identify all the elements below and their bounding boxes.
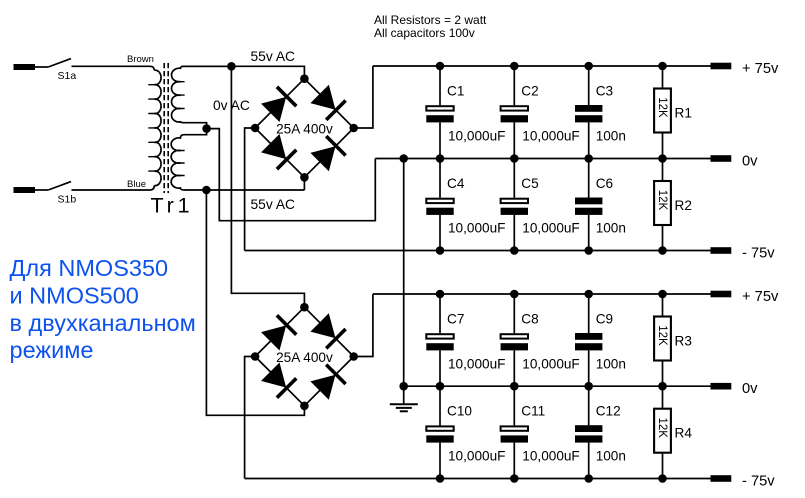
junction +75v upper rail x514 <box>510 62 519 71</box>
diode BR1 (top AC to DC+) <box>310 85 345 120</box>
svg-text:100n: 100n <box>596 356 626 371</box>
terminal (mains input, S1b side) <box>14 187 36 193</box>
node BR2 left DC- pin <box>251 352 260 361</box>
wire top AC feed to bridge 2 <box>231 66 304 307</box>
capacitor C6 <box>575 159 602 251</box>
junction 0v upper rail x403 <box>399 154 408 163</box>
junction 0v lower rail x662 <box>658 382 667 391</box>
transformer Tr1 core <box>164 63 168 193</box>
junction 0v upper rail x662 <box>658 154 667 163</box>
wire +75v rail (lower) <box>373 293 711 295</box>
junction +75v upper rail x588 <box>584 62 593 71</box>
svg-text:55v AC: 55v AC <box>251 197 296 212</box>
capacitor C10 <box>426 386 453 478</box>
svg-text:C11: C11 <box>521 404 545 419</box>
junction -75v upper rail x588 <box>584 246 593 255</box>
junction +75v lower rail x662 <box>658 290 667 299</box>
junction 0v lower rail x588 <box>584 382 593 391</box>
diode BR2 (DC- to bottom AC) <box>261 363 296 398</box>
svg-text:+ 75v: + 75v <box>742 61 779 77</box>
capacitor C11 <box>501 386 528 478</box>
svg-text:R2: R2 <box>675 198 692 213</box>
svg-text:и NMOS500: и NMOS500 <box>10 282 139 308</box>
capacitor C4 <box>426 159 453 251</box>
svg-text:12K: 12K <box>656 325 668 346</box>
resistor R3 <box>654 294 671 386</box>
svg-text:55v AC: 55v AC <box>251 49 296 64</box>
svg-text:10,000uF: 10,000uF <box>448 356 505 371</box>
wire S1a terminal to switch <box>35 66 48 68</box>
svg-text:10,000uF: 10,000uF <box>522 356 579 371</box>
node BR1 right DC+ pin <box>349 124 358 133</box>
capacitor C2 <box>501 66 528 159</box>
svg-text:0v: 0v <box>742 381 758 397</box>
svg-text:Blue: Blue <box>127 179 146 190</box>
wire S1b terminal to switch <box>35 189 48 191</box>
terminal - 75v (lower bank) <box>711 475 732 482</box>
junction -75v upper rail x440 <box>436 246 445 255</box>
capacitor C7 <box>426 294 453 386</box>
junction 0v lower rail x440 <box>436 382 445 391</box>
svg-text:10,000uF: 10,000uF <box>448 449 505 464</box>
bridge rectifier BR2 arms <box>255 307 354 406</box>
switch S1b <box>48 182 71 190</box>
wire 0v interlink (upper to lower bank) <box>403 159 405 387</box>
junction 0v upper rail x588 <box>584 154 593 163</box>
transformer Tr1 secondary winding (bottom 55v) <box>171 131 304 190</box>
wire -75v rail (upper) <box>245 250 711 252</box>
wire S1b switch to transformer (Blue) <box>72 186 155 191</box>
wire top 55v AC (secondary to bridge 1) <box>181 66 304 78</box>
node centre tap 0v AC <box>202 124 211 133</box>
wire 0v rail (upper) <box>375 158 711 160</box>
junction -75v lower rail x662 <box>658 474 667 483</box>
node BR1 left DC- pin <box>251 124 260 133</box>
node BR2 right DC+ pin <box>349 352 358 361</box>
transformer Tr1 primary winding cusps <box>148 85 154 171</box>
svg-text:- 75v: - 75v <box>742 473 775 489</box>
terminal + 75v (upper bank) <box>711 63 732 70</box>
capacitor C12 <box>575 386 602 478</box>
node BR1 top AC pin <box>300 74 309 83</box>
svg-text:S1a: S1a <box>58 70 77 82</box>
svg-text:0v AC: 0v AC <box>213 98 250 113</box>
wire -75v rail (lower) <box>245 478 711 480</box>
svg-text:R4: R4 <box>675 426 693 441</box>
diode BR2 (DC- to top AC) <box>261 315 296 350</box>
wire bridge 1 bottom AC riser <box>303 177 305 190</box>
junction +75v lower rail x440 <box>436 290 445 299</box>
wire S1a switch to transformer (Brown) <box>72 66 155 70</box>
diode BR2 (top AC to DC+) <box>310 313 345 348</box>
resistor R2 <box>654 159 671 251</box>
svg-text:- 75v: - 75v <box>742 245 775 261</box>
svg-text:All capacitors 100v: All capacitors 100v <box>374 26 475 40</box>
diode BR1 (DC- to top AC) <box>261 87 296 122</box>
svg-text:C6: C6 <box>596 176 613 191</box>
transformer Tr1 bottom secondary cusps <box>180 151 184 176</box>
svg-text:C1: C1 <box>447 84 464 99</box>
junction +75v upper rail x662 <box>658 62 667 71</box>
svg-text:12K: 12K <box>656 97 668 118</box>
svg-text:100n: 100n <box>596 129 626 144</box>
svg-text:режиме: режиме <box>10 337 94 363</box>
svg-text:10,000uF: 10,000uF <box>522 449 579 464</box>
svg-text:C8: C8 <box>521 312 538 327</box>
junction -75v upper rail x662 <box>658 246 667 255</box>
junction 0v upper rail x440 <box>436 154 445 163</box>
capacitor C1 <box>426 66 453 159</box>
node top 55v AC junction <box>227 62 236 71</box>
svg-text:Для NMOS350: Для NMOS350 <box>10 255 169 281</box>
diode BR1 (DC- to bottom AC) <box>261 134 296 169</box>
svg-text:C10: C10 <box>447 404 472 419</box>
svg-text:C4: C4 <box>447 176 465 191</box>
svg-text:10,000uF: 10,000uF <box>522 129 579 144</box>
svg-text:100n: 100n <box>596 449 626 464</box>
node BR2 top AC pin <box>300 303 309 312</box>
svg-text:100n: 100n <box>596 221 626 236</box>
svg-text:C2: C2 <box>521 84 538 99</box>
capacitor C8 <box>501 294 528 386</box>
svg-text:R1: R1 <box>675 106 692 121</box>
diode BR2 (bottom AC to DC+) <box>310 365 345 400</box>
svg-text:C12: C12 <box>596 404 621 419</box>
junction -75v lower rail x440 <box>436 474 445 483</box>
wire bridge 2 DC+ to +75v rail <box>354 294 373 357</box>
terminal 0v (upper bank) <box>711 155 732 162</box>
terminal + 75v (lower bank) <box>711 291 732 298</box>
svg-text:R3: R3 <box>675 334 692 349</box>
svg-text:C7: C7 <box>447 312 464 327</box>
node bottom 55v AC junction <box>202 186 211 195</box>
bridge rectifier BR1 arms <box>255 79 354 178</box>
junction +75v upper rail x440 <box>436 62 445 71</box>
junction +75v lower rail x588 <box>584 290 593 299</box>
junction 0v upper rail x514 <box>510 154 519 163</box>
svg-text:C9: C9 <box>596 312 613 327</box>
junction -75v lower rail x514 <box>510 474 519 483</box>
wire centre tap to 0v rail <box>207 129 376 221</box>
wire bridge 1 DC+ to +75v rail <box>354 66 373 128</box>
svg-text:в двухканальном: в двухканальном <box>10 310 196 336</box>
resistor R1 <box>654 66 671 159</box>
capacitor C9 <box>575 294 602 386</box>
transformer Tr1 top secondary cusps <box>180 82 184 109</box>
junction 0v lower rail x514 <box>510 382 519 391</box>
svg-text:25A 400v: 25A 400v <box>276 121 333 136</box>
svg-text:C3: C3 <box>596 84 613 99</box>
svg-text:12K: 12K <box>656 417 668 438</box>
wire bridge 2 DC- to -75v rail <box>245 357 256 479</box>
node BR2 bottom AC pin <box>300 402 309 411</box>
junction -75v upper rail x514 <box>510 246 519 255</box>
capacitor C5 <box>501 159 528 251</box>
wire bottom AC feed to bridge 2 <box>206 190 304 415</box>
svg-text:10,000uF: 10,000uF <box>448 129 505 144</box>
svg-text:Brown: Brown <box>127 54 154 65</box>
node BR1 bottom AC pin <box>300 173 309 182</box>
svg-text:All Resistors = 2 watt: All Resistors = 2 watt <box>374 13 487 27</box>
svg-text:C5: C5 <box>521 176 538 191</box>
transformer Tr1 primary winding <box>154 70 161 185</box>
svg-text:0v: 0v <box>742 153 758 169</box>
wire 0v rail (lower) <box>404 385 711 387</box>
svg-text:+ 75v: + 75v <box>742 289 779 305</box>
wire bridge 1 DC- to -75v rail <box>245 128 256 251</box>
diode BR1 (bottom AC to DC+) <box>310 136 345 171</box>
svg-text:Tr1: Tr1 <box>151 194 194 218</box>
svg-text:10,000uF: 10,000uF <box>448 221 505 236</box>
transformer Tr1 secondary winding (top 55v) <box>172 66 232 126</box>
capacitor C3 <box>575 66 602 159</box>
junction -75v lower rail x588 <box>584 474 593 483</box>
terminal (mains input, S1a side) <box>14 64 36 70</box>
terminal - 75v (upper bank) <box>711 247 732 254</box>
switch S1a <box>48 59 71 67</box>
svg-text:10,000uF: 10,000uF <box>522 221 579 236</box>
resistor R4 <box>654 386 671 478</box>
wire +75v rail (upper) <box>373 65 711 67</box>
ground <box>390 386 418 411</box>
svg-text:S1b: S1b <box>58 194 77 206</box>
terminal 0v (lower bank) <box>711 383 732 390</box>
junction 0v lower rail x403 <box>399 382 408 391</box>
svg-text:12K: 12K <box>656 190 668 211</box>
junction +75v lower rail x514 <box>510 290 519 299</box>
svg-text:25A 400v: 25A 400v <box>276 350 333 365</box>
